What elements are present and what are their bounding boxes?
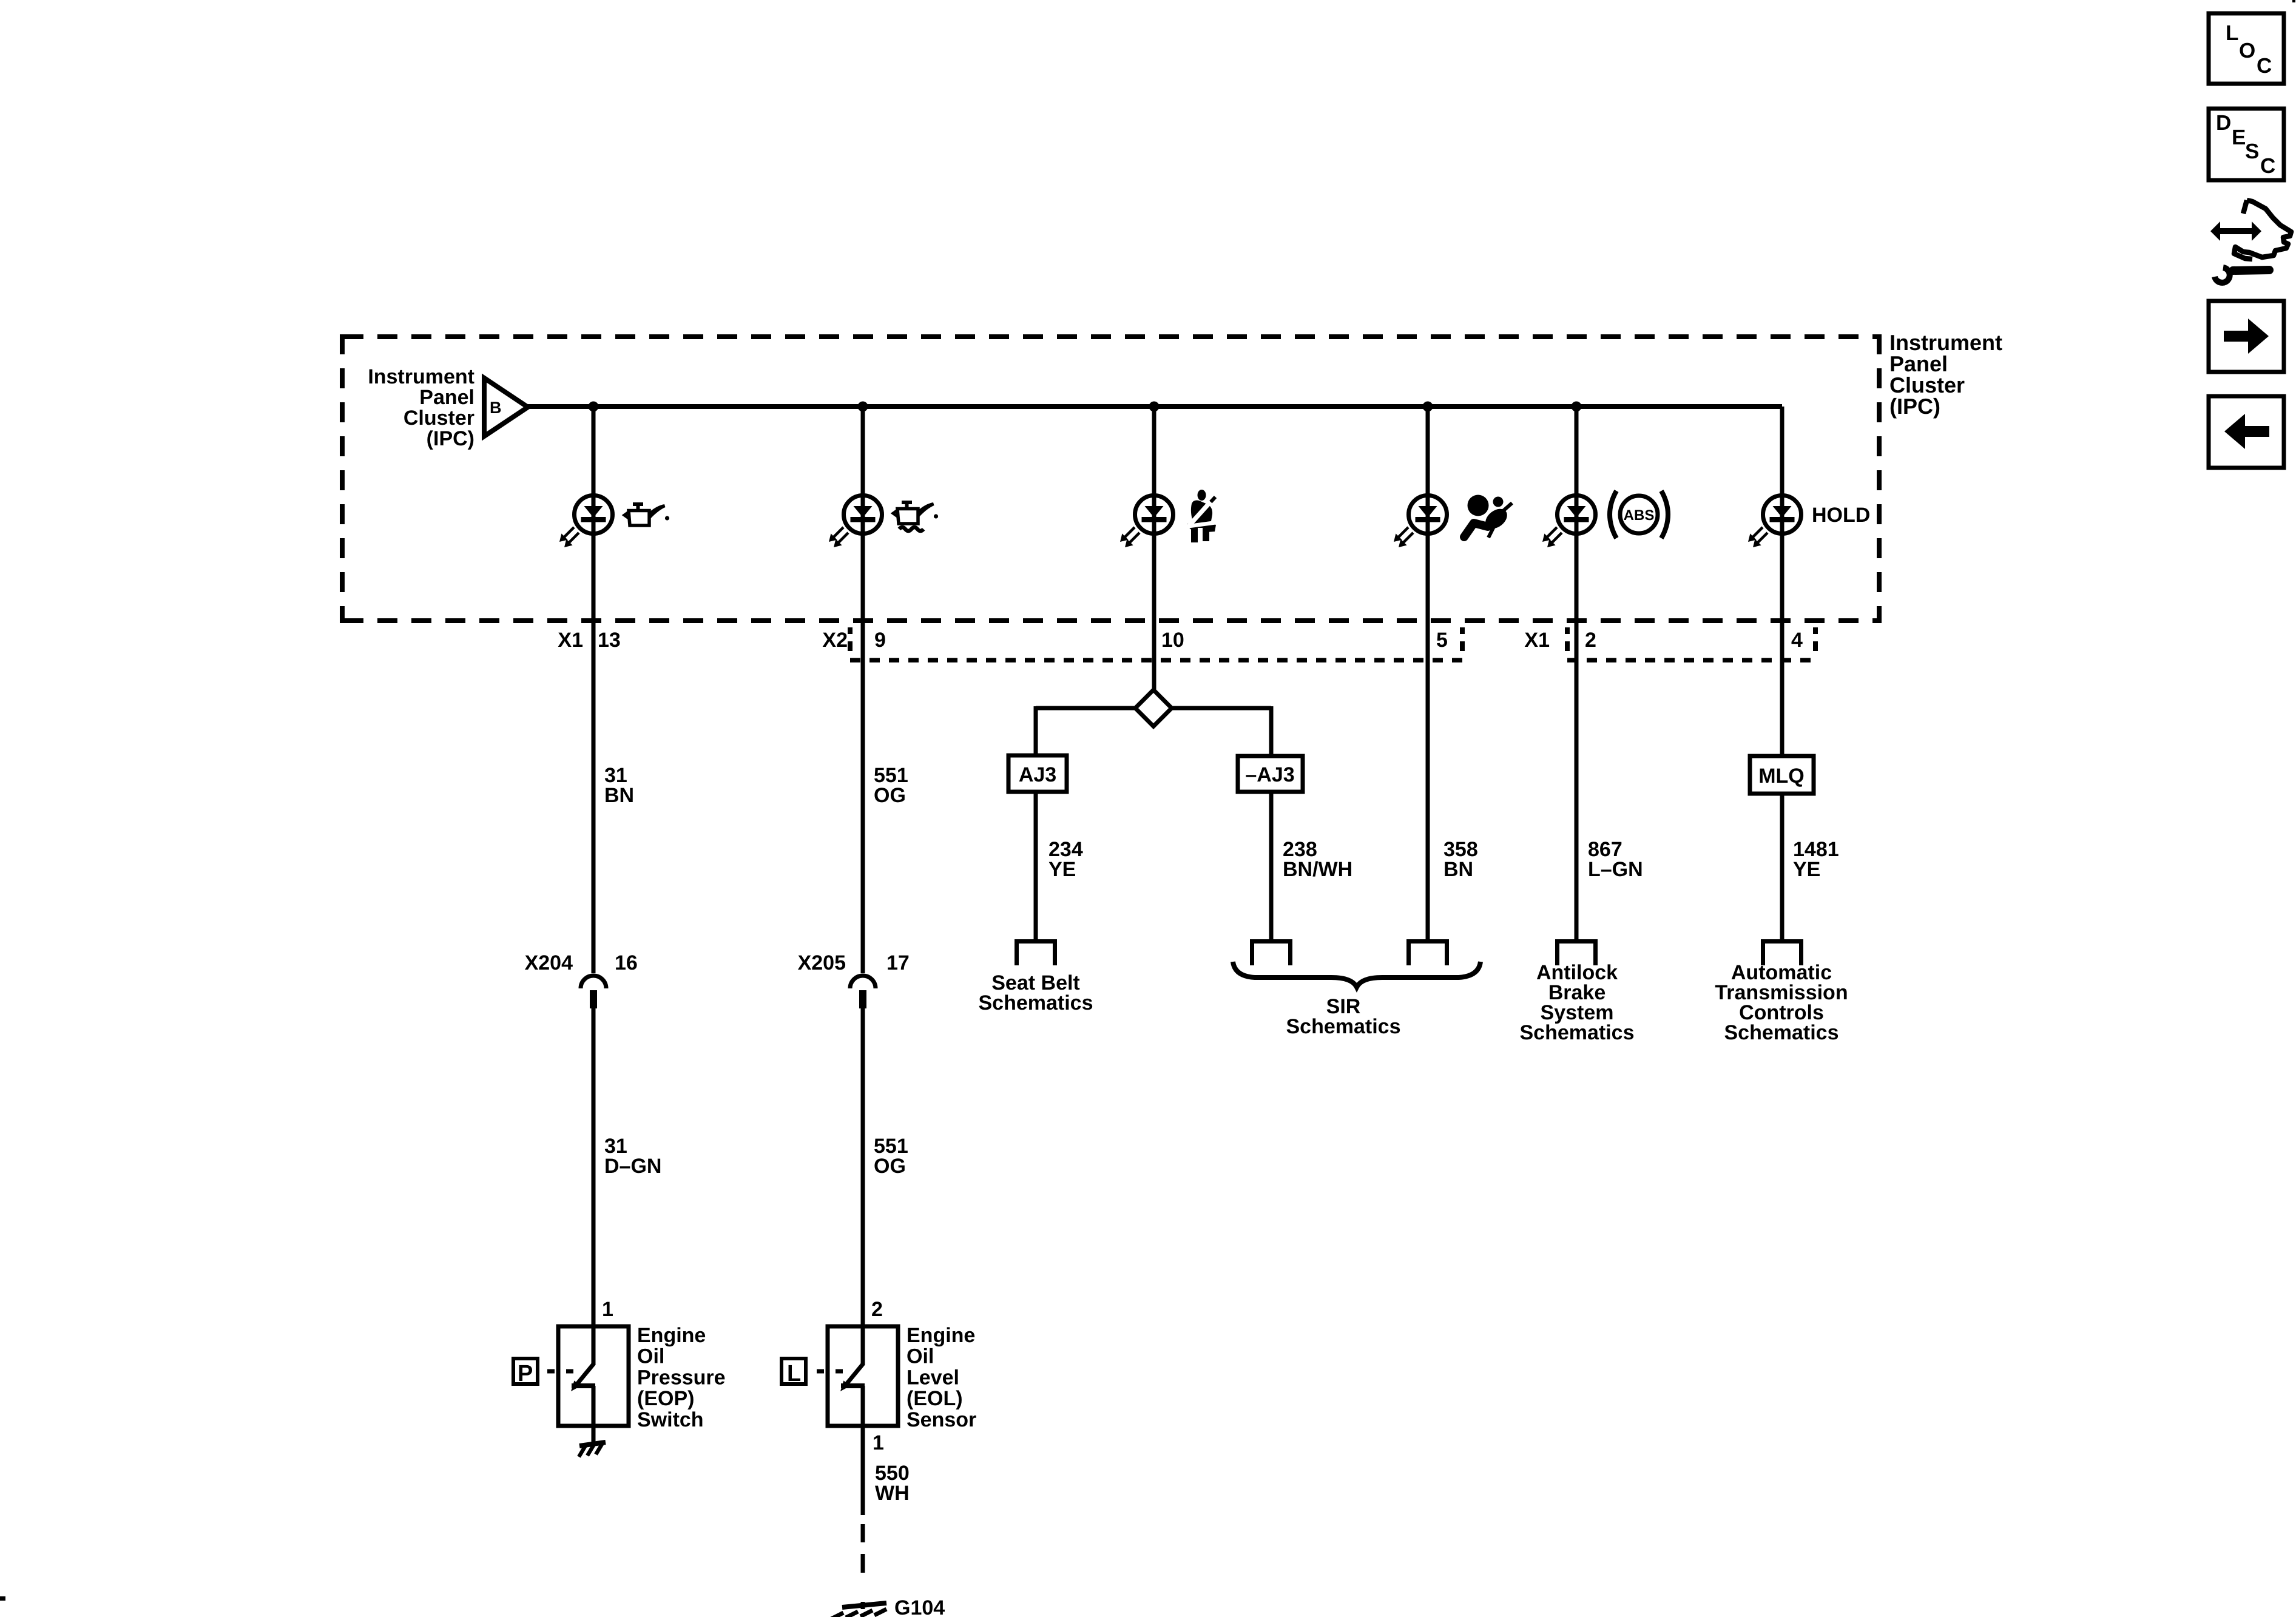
svg-text:Engine: Engine	[907, 1324, 975, 1347]
svg-text:1: 1	[602, 1298, 613, 1321]
svg-text:2: 2	[871, 1298, 883, 1321]
svg-text:4: 4	[1791, 629, 1803, 652]
svg-text:Schematics: Schematics	[1520, 1021, 1635, 1044]
svg-text:D: D	[2216, 111, 2231, 135]
svg-text:MLQ: MLQ	[1758, 765, 1805, 788]
svg-text:X204: X204	[525, 951, 573, 974]
svg-text:E: E	[2232, 126, 2246, 149]
svg-text:(EOL): (EOL)	[907, 1387, 963, 1410]
svg-text:L: L	[787, 1361, 801, 1386]
svg-text:Oil: Oil	[637, 1345, 664, 1368]
svg-text:(IPC): (IPC)	[427, 427, 474, 450]
svg-text:Panel: Panel	[419, 386, 474, 409]
svg-text:C: C	[2260, 154, 2275, 178]
svg-text:2: 2	[1585, 629, 1596, 652]
svg-text:YE: YE	[1048, 858, 1076, 881]
svg-text:Schematics: Schematics	[1724, 1021, 1839, 1044]
svg-text:17: 17	[886, 951, 910, 974]
svg-text:B: B	[490, 399, 502, 417]
svg-text:ABS: ABS	[1624, 507, 1655, 524]
svg-text:Level: Level	[907, 1366, 959, 1389]
svg-text:YE: YE	[1793, 858, 1820, 881]
svg-text:BN: BN	[604, 784, 634, 807]
svg-text:Oil: Oil	[907, 1345, 934, 1368]
svg-text:Pressure: Pressure	[637, 1366, 726, 1389]
svg-text:1: 1	[873, 1431, 884, 1454]
svg-text:X1: X1	[558, 629, 583, 652]
svg-text:BN: BN	[1443, 858, 1473, 881]
svg-text:Sensor: Sensor	[907, 1408, 976, 1431]
svg-text:OG: OG	[874, 1155, 906, 1178]
svg-text:BN/WH: BN/WH	[1283, 858, 1352, 881]
svg-text:Schematics: Schematics	[979, 991, 1093, 1014]
svg-text:Cluster: Cluster	[403, 407, 474, 430]
svg-text:L: L	[2226, 21, 2238, 45]
svg-text:10: 10	[1161, 629, 1184, 652]
svg-text:9: 9	[874, 629, 886, 652]
svg-text:–AJ3: –AJ3	[1245, 763, 1294, 786]
svg-text:WH: WH	[875, 1482, 910, 1505]
svg-text:AJ3: AJ3	[1019, 763, 1056, 786]
svg-text:Engine: Engine	[637, 1324, 706, 1347]
svg-text:13: 13	[598, 629, 621, 652]
svg-text:O: O	[2239, 39, 2255, 62]
svg-text:Switch: Switch	[637, 1408, 704, 1431]
svg-text:Schematics: Schematics	[1286, 1015, 1401, 1038]
svg-text:HOLD: HOLD	[1812, 504, 1870, 527]
svg-text:X1: X1	[1524, 629, 1550, 652]
svg-text:G104: G104	[894, 1596, 945, 1617]
svg-text:(EOP): (EOP)	[637, 1387, 694, 1410]
svg-text:5: 5	[1436, 629, 1448, 652]
svg-text:C: C	[2257, 54, 2272, 78]
svg-text:D–GN: D–GN	[604, 1155, 661, 1178]
svg-text:16: 16	[615, 951, 638, 974]
svg-text:X2: X2	[822, 629, 848, 652]
svg-text:X205: X205	[798, 951, 846, 974]
svg-text:L–GN: L–GN	[1588, 858, 1643, 881]
svg-text:OG: OG	[874, 784, 906, 807]
svg-text:Instrument: Instrument	[368, 365, 474, 388]
svg-text:S: S	[2245, 140, 2259, 163]
svg-text:(IPC): (IPC)	[1889, 394, 1940, 419]
svg-text:P: P	[518, 1361, 533, 1386]
